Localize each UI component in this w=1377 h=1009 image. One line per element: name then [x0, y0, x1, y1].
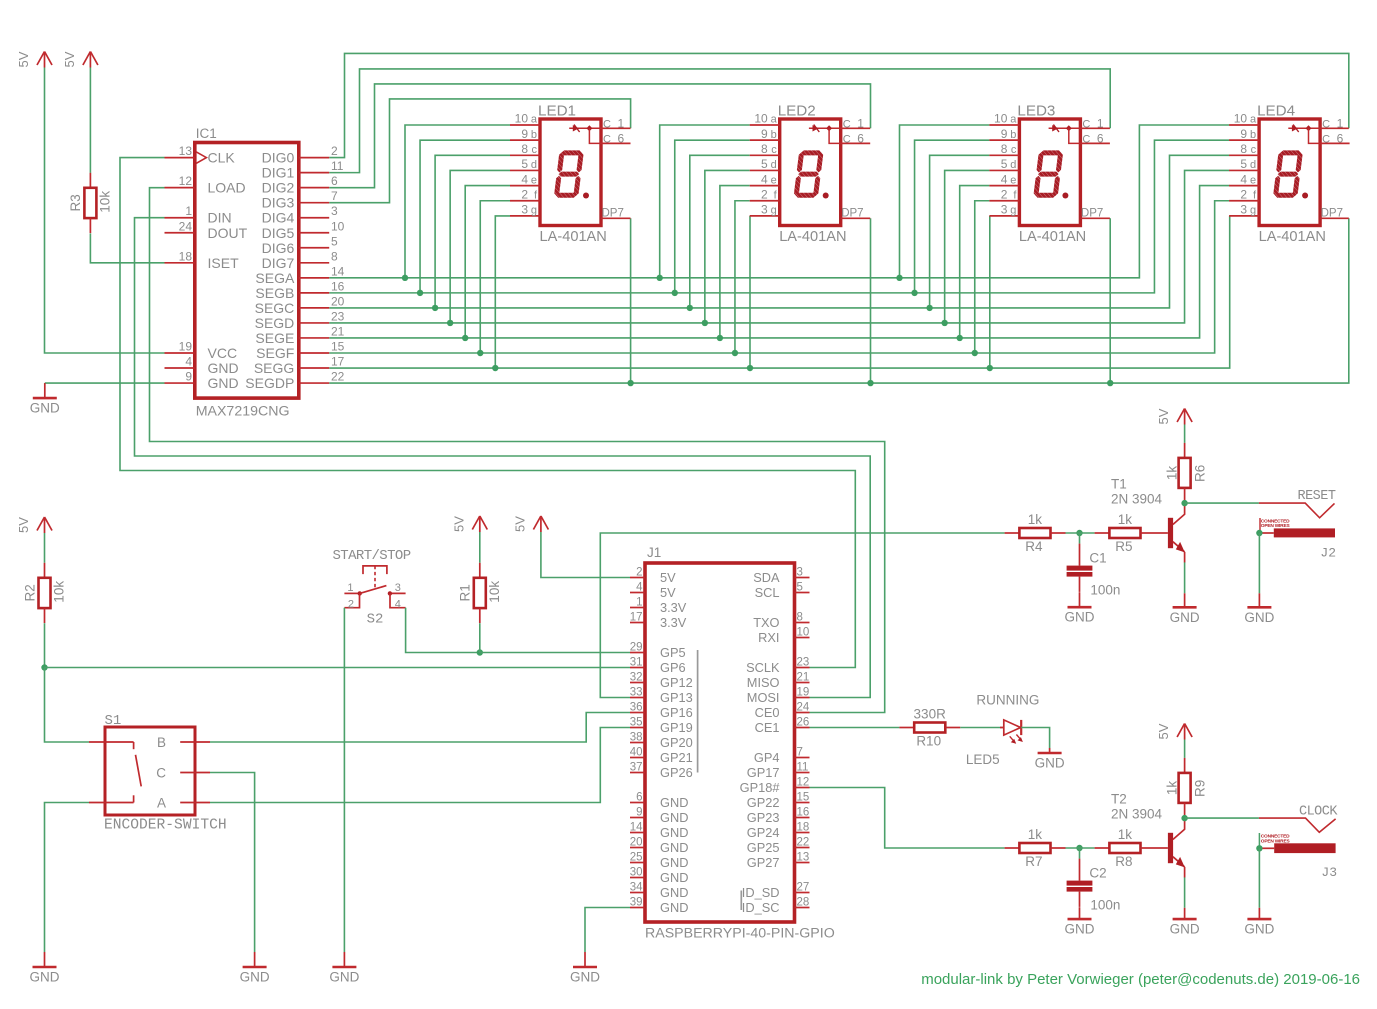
J1 pin 18 GP24	[747, 822, 810, 841]
svg-text:2N 3904: 2N 3904	[1111, 807, 1163, 822]
IC1 pin 2 DIG0	[262, 144, 338, 166]
svg-text:28: 28	[797, 897, 810, 909]
svg-text:e: e	[1010, 174, 1016, 186]
svg-text:5: 5	[521, 157, 528, 171]
svg-text:4: 4	[1240, 172, 1247, 186]
wire LED2 segment b riser	[675, 140, 750, 293]
wire bus SEGE	[329, 186, 1229, 338]
svg-text:12: 12	[797, 777, 810, 789]
svg-text:23: 23	[331, 309, 345, 323]
svg-text:5V: 5V	[660, 585, 676, 600]
svg-text:2: 2	[348, 599, 354, 611]
svg-text:10: 10	[1234, 112, 1248, 126]
svg-text:GND: GND	[660, 885, 688, 900]
svg-text:e: e	[1250, 174, 1256, 186]
junction SEGE tap LED1	[462, 335, 468, 341]
svg-text:5: 5	[1001, 157, 1008, 171]
junction R4/R5/C1	[1076, 530, 1082, 536]
LED3 pin 3 g	[989, 203, 1019, 217]
svg-text:GND: GND	[329, 970, 359, 985]
junction SEGD tap LED3	[941, 320, 947, 326]
svg-text:a: a	[771, 114, 778, 126]
power 5V R9 top	[1156, 723, 1192, 739]
svg-text:1k: 1k	[1118, 827, 1133, 842]
junction SEGB tap LED2	[672, 290, 678, 296]
J1 pin 3 SDA	[753, 567, 809, 586]
LED1 seven-segment digit 8	[554, 150, 584, 197]
svg-text:19: 19	[179, 339, 193, 353]
wire R1 to GP5 node	[479, 623, 481, 652]
svg-text:DIG4: DIG4	[262, 210, 295, 226]
wire S1 A-left to ground	[45, 803, 90, 953]
svg-text:C1: C1	[1089, 551, 1106, 566]
wire LED1 DP drop	[630, 218, 632, 383]
LED1 pin 8 c	[510, 142, 540, 156]
J1 pin 10 RXI	[758, 627, 809, 646]
svg-text:LED5: LED5	[966, 752, 1000, 767]
svg-text:GND: GND	[660, 840, 688, 855]
IC1 pin 5 DIG6	[262, 234, 338, 256]
LED1 decimal point	[583, 193, 589, 199]
svg-text:e: e	[771, 174, 777, 186]
wire R5 to T1 base	[1156, 532, 1168, 534]
svg-text:3: 3	[761, 203, 768, 217]
svg-text:DIN: DIN	[208, 210, 232, 226]
J1 pin 16 GP23	[747, 807, 810, 826]
wire bus SEGD	[329, 170, 1229, 322]
svg-text:21: 21	[797, 672, 810, 684]
svg-text:LA-401AN: LA-401AN	[779, 229, 846, 245]
svg-text:6: 6	[1337, 131, 1344, 145]
wire S2 to ground	[343, 608, 345, 952]
svg-text:1: 1	[618, 116, 625, 130]
J1 GPIO bracket line	[697, 650, 699, 773]
svg-text:a: a	[1010, 114, 1017, 126]
wire R2 to GP6 node	[44, 623, 46, 667]
svg-text:GND: GND	[1065, 610, 1095, 625]
svg-text:GND: GND	[1170, 610, 1200, 625]
J1 pin 32 GP12	[630, 672, 693, 691]
wire S1 A to GP19	[210, 728, 630, 803]
wire T2 emitter to ground	[1184, 877, 1186, 907]
J1 pin 9 GND	[630, 807, 688, 826]
junction SEGC tap LED2	[687, 305, 693, 311]
svg-text:GP13: GP13	[660, 690, 693, 705]
wire LED1 segment d riser	[450, 170, 510, 322]
wire DIN net to J1 MOSI	[135, 218, 871, 698]
wire node to C1	[1079, 533, 1081, 544]
svg-text:CLK: CLK	[208, 150, 236, 166]
LED1 pin 7 DP	[601, 208, 631, 220]
svg-text:START/STOP: START/STOP	[333, 548, 411, 564]
J1 pin 24 CE0	[755, 702, 810, 721]
svg-text:2: 2	[1240, 187, 1247, 201]
IC1 pin 12 LOAD	[165, 174, 246, 196]
J1 pin 38 GP20	[630, 732, 693, 751]
J1 pin 29 GP5	[630, 642, 686, 661]
ground C1	[1065, 592, 1095, 625]
svg-text:LA-401AN: LA-401AN	[1259, 229, 1326, 245]
svg-text:2: 2	[761, 187, 768, 201]
junction SEGA tap LED1	[402, 275, 408, 281]
wire node to C2	[1079, 848, 1081, 859]
svg-text:9: 9	[1240, 127, 1247, 141]
wire LED2 segment d riser	[705, 170, 750, 322]
connector J2	[1259, 518, 1335, 537]
svg-text:b: b	[1250, 129, 1256, 141]
wire T1 emitter to ground	[1184, 562, 1186, 593]
svg-text:GND: GND	[1244, 610, 1274, 625]
svg-text:10: 10	[754, 112, 768, 126]
junction SEGDP tap LED3	[1107, 380, 1113, 386]
svg-text:1k: 1k	[1165, 466, 1180, 481]
svg-text:C: C	[843, 118, 851, 130]
svg-text:MAX7219CNG: MAX7219CNG	[196, 404, 290, 420]
svg-text:SEGB: SEGB	[255, 285, 294, 301]
svg-text:1k: 1k	[1118, 512, 1133, 527]
svg-text:40: 40	[630, 747, 643, 759]
svg-text:S2: S2	[367, 612, 384, 628]
svg-text:LED4: LED4	[1257, 103, 1295, 120]
J1 pin 15 GP22	[747, 792, 810, 811]
svg-text:C: C	[1082, 133, 1090, 145]
svg-text:6: 6	[857, 131, 864, 145]
LED2 seven-segment digit 8	[793, 150, 823, 197]
svg-text:R8: R8	[1115, 854, 1132, 869]
svg-text:4: 4	[395, 599, 401, 611]
svg-text:38: 38	[630, 732, 643, 744]
svg-text:GP5: GP5	[660, 645, 686, 660]
svg-text:10: 10	[331, 219, 345, 233]
svg-text:R4: R4	[1025, 539, 1043, 554]
LED2 pin 7 DP	[841, 208, 871, 220]
svg-text:B: B	[157, 735, 166, 750]
svg-text:GND: GND	[208, 375, 239, 391]
ground S1 A	[30, 952, 60, 985]
svg-text:22: 22	[797, 837, 810, 849]
power 5V J1 5V	[512, 516, 548, 532]
LED4 common cathode symbol	[1288, 125, 1320, 144]
IC1 pin 7 DIG3	[262, 189, 338, 211]
power 5V R3 top	[62, 51, 98, 67]
svg-text:C: C	[1082, 118, 1090, 130]
IC1 pin 21 SEGE	[255, 324, 344, 346]
svg-text:SEGF: SEGF	[256, 345, 294, 361]
svg-text:15: 15	[797, 792, 810, 804]
IC1 pin 6 DIG2	[262, 174, 338, 196]
J1 pin 22 GP25	[747, 837, 810, 856]
svg-text:4: 4	[1001, 172, 1008, 186]
svg-text:17: 17	[630, 612, 643, 624]
junction SEGE tap LED2	[717, 335, 723, 341]
junction SEGG tap LED3	[987, 365, 993, 371]
svg-text:GND: GND	[1035, 756, 1065, 771]
wire LED3 segment f riser	[975, 201, 990, 353]
junction SEGG tap LED1	[492, 365, 498, 371]
wire LED2 segment g riser	[749, 216, 751, 368]
svg-text:d: d	[771, 159, 777, 171]
J1 pin 4 5V	[630, 582, 676, 601]
svg-text:C2: C2	[1089, 866, 1106, 881]
svg-text:GP24: GP24	[747, 825, 780, 840]
wire DIG2 to LED2 C	[329, 84, 870, 188]
svg-text:29: 29	[630, 642, 643, 654]
svg-text:LED2: LED2	[778, 103, 816, 120]
svg-text:10: 10	[797, 627, 810, 639]
J1 pin 17 3.3V	[630, 612, 687, 631]
svg-text:A: A	[157, 796, 166, 811]
LED2 pin 5 d	[750, 157, 780, 171]
svg-text:3: 3	[1001, 203, 1008, 217]
IC1 pin 4 GND	[165, 355, 239, 377]
LED2 pin 1 C	[841, 116, 871, 130]
wire R10 to LED5	[960, 727, 1004, 729]
capacitor C2	[1067, 859, 1121, 913]
wire J3 to ground	[1258, 848, 1260, 908]
svg-text:5V: 5V	[62, 51, 77, 67]
wire LED1 segment g riser	[495, 216, 510, 368]
svg-text:5: 5	[761, 157, 768, 171]
svg-text:11: 11	[331, 159, 344, 173]
svg-text:26: 26	[797, 717, 810, 729]
J1 pin 6 GND	[630, 792, 688, 811]
svg-text:5V: 5V	[16, 51, 31, 67]
svg-text:T2: T2	[1111, 792, 1127, 807]
svg-text:CE0: CE0	[755, 705, 780, 720]
svg-text:8: 8	[521, 142, 528, 156]
wire bus SEGG	[329, 216, 1229, 368]
svg-text:OPEN WIRES: OPEN WIRES	[1261, 523, 1291, 529]
LED2 pin 10 a	[750, 112, 780, 126]
junction SEGF tap LED1	[477, 350, 483, 356]
svg-text:18: 18	[797, 822, 810, 834]
svg-text:g: g	[771, 205, 777, 217]
svg-text:14: 14	[630, 822, 643, 834]
wire node to R5	[1066, 532, 1095, 534]
svg-text:c: c	[771, 144, 777, 156]
IC1 pin 9 GND	[165, 370, 239, 392]
svg-text:10k: 10k	[97, 191, 112, 213]
LED display LED2 LA-401AN	[780, 119, 841, 226]
J1 pin 39 GND	[630, 897, 689, 916]
LED4 pin 4 e	[1229, 172, 1259, 186]
svg-text:ID_SD: ID_SD	[742, 885, 780, 900]
svg-text:LED3: LED3	[1017, 103, 1055, 120]
svg-text:TXO: TXO	[753, 615, 779, 630]
junction SEGE tap LED3	[957, 335, 963, 341]
LED4 pin 6 C	[1320, 131, 1350, 145]
IC1 pin 15 SEGF	[256, 339, 344, 361]
resistor R2	[22, 563, 66, 623]
svg-text:SCLK: SCLK	[746, 660, 780, 675]
LED3 pin 7 DP	[1080, 208, 1110, 220]
LED3 common cathode symbol	[1049, 125, 1081, 144]
ground J3	[1244, 908, 1274, 937]
connector J1 RASPBERRYPI-40-PIN-GPIO	[645, 563, 795, 922]
svg-text:GP25: GP25	[747, 840, 780, 855]
junction SEGA tap LED3	[896, 275, 902, 281]
svg-text:c: c	[1011, 144, 1017, 156]
svg-text:11: 11	[797, 762, 809, 774]
J1 pin 34 GND	[630, 882, 689, 901]
junction R7/R8/C2	[1076, 845, 1082, 851]
power 5V R6 top	[1156, 408, 1192, 424]
J1 pin 25 GND	[630, 852, 689, 871]
wire node to R8	[1066, 847, 1095, 849]
junction SEGD tap LED2	[702, 320, 708, 326]
svg-text:ID_SC: ID_SC	[742, 900, 780, 915]
LED3 decimal point	[1062, 193, 1068, 199]
power 5V VCC rail	[16, 51, 52, 67]
LED1 pin 3 g	[510, 203, 540, 217]
svg-text:GP12: GP12	[660, 675, 693, 690]
svg-text:GP23: GP23	[747, 810, 780, 825]
svg-text:32: 32	[630, 672, 643, 684]
svg-text:SCL: SCL	[755, 585, 780, 600]
LED4 pin 7 DP	[1320, 208, 1349, 220]
svg-text:DP7: DP7	[1081, 208, 1103, 220]
IC U IC1 MAX7219CNG	[195, 143, 299, 399]
svg-text:C: C	[843, 133, 851, 145]
ground T2	[1170, 908, 1200, 937]
svg-text:C: C	[603, 118, 611, 130]
svg-text:DP7: DP7	[841, 208, 863, 220]
svg-text:SEGA: SEGA	[255, 270, 295, 286]
power 5V R2 top	[16, 517, 52, 533]
svg-text:GND: GND	[660, 825, 688, 840]
svg-text:GND: GND	[1065, 922, 1095, 937]
svg-text:LED1: LED1	[538, 103, 576, 120]
svg-text:7: 7	[797, 747, 803, 759]
LED2 pin 9 b	[750, 127, 780, 141]
junction SEGDP tap LED1	[627, 380, 633, 386]
wire R8 to T2 base	[1156, 847, 1168, 849]
svg-text:1: 1	[857, 116, 864, 130]
svg-text:GP26: GP26	[660, 765, 693, 780]
svg-text:DP7: DP7	[602, 208, 624, 220]
J1 pin 23 SCLK	[746, 657, 809, 676]
svg-text:6: 6	[1097, 131, 1104, 145]
svg-text:1: 1	[636, 597, 642, 609]
IC1 pin 1 DIN	[165, 204, 232, 226]
svg-text:DIG5: DIG5	[262, 225, 295, 241]
IC1 pin 24 DOUT	[165, 219, 248, 241]
svg-text:5V: 5V	[660, 570, 676, 585]
resistor R5	[1095, 512, 1156, 554]
IC1 pin 13 CLK	[165, 144, 236, 166]
junction SEGA tap LED2	[657, 275, 663, 281]
J1 pin 14 GND	[630, 822, 689, 841]
wire 5V to R9	[1184, 740, 1186, 758]
junction R1/GP5	[477, 649, 483, 655]
svg-text:8: 8	[761, 142, 768, 156]
svg-text:100n: 100n	[1090, 898, 1120, 913]
IC1 pin 16 SEGB	[255, 279, 344, 301]
wire GP5 net	[480, 652, 630, 654]
svg-text:C: C	[603, 133, 611, 145]
svg-text:34: 34	[630, 882, 643, 894]
svg-text:IC1: IC1	[196, 126, 217, 141]
LED4 pin 3 g	[1229, 203, 1259, 217]
junction SEGB tap LED3	[911, 290, 917, 296]
LED4 decimal point	[1302, 193, 1308, 199]
svg-text:LA-401AN: LA-401AN	[540, 229, 607, 245]
svg-text:modular-link by Peter Vorwiege: modular-link by Peter Vorwieger (peter@c…	[921, 971, 1360, 988]
svg-text:DIG6: DIG6	[262, 240, 295, 256]
LED2 pin 2 f	[750, 187, 780, 201]
svg-text:GP18#: GP18#	[740, 780, 781, 795]
wire S1 B to GP16	[210, 713, 630, 743]
wire LED3 segment c riser	[930, 155, 990, 308]
svg-text:J1: J1	[647, 545, 661, 560]
LED4 seven-segment digit 8	[1273, 150, 1303, 197]
svg-text:19: 19	[797, 687, 810, 699]
svg-text:8: 8	[1240, 142, 1247, 156]
svg-text:c: c	[532, 144, 538, 156]
wire CLK net to J1 SCLK	[120, 158, 855, 668]
svg-text:b: b	[531, 129, 537, 141]
svg-text:RXI: RXI	[758, 630, 779, 645]
svg-text:R5: R5	[1115, 539, 1132, 554]
wire S2 to GP5 node	[406, 608, 480, 653]
svg-text:18: 18	[179, 249, 193, 263]
svg-text:30: 30	[630, 867, 643, 879]
svg-text:5: 5	[1240, 157, 1247, 171]
svg-text:22: 22	[331, 370, 345, 384]
capacitor C1	[1067, 544, 1121, 598]
svg-text:GND: GND	[1170, 922, 1200, 937]
svg-text:3: 3	[395, 582, 401, 594]
J1 pin 8 TXO	[753, 612, 809, 631]
LED3 pin 6 C	[1080, 131, 1110, 145]
J1 pin 28 ID_SC	[742, 897, 810, 916]
J1 pin 26 CE1	[755, 717, 810, 736]
LED1 pin 1 C	[601, 116, 631, 130]
wire 5V to J1 pin2	[541, 532, 630, 578]
svg-text:4: 4	[521, 172, 528, 186]
LED1 pin 6 C	[601, 131, 631, 145]
svg-text:J2: J2	[1320, 546, 1336, 561]
wire 5V to R1	[479, 532, 481, 563]
svg-text:R6: R6	[1192, 465, 1207, 482]
wire LED3 segment d riser	[945, 170, 990, 322]
J1 pin 13 GP27	[747, 852, 810, 871]
wire LED2 segment e riser	[720, 186, 750, 338]
svg-text:5V: 5V	[1156, 723, 1171, 739]
J1 pin 27 ID_SD	[742, 882, 810, 901]
svg-text:9: 9	[185, 370, 192, 384]
svg-text:2: 2	[1001, 187, 1008, 201]
wire LED2 DP drop	[870, 218, 872, 383]
wire LED3 segment e riser	[960, 186, 990, 338]
wire LED3 segment g riser	[989, 216, 991, 368]
svg-text:T1: T1	[1111, 477, 1127, 492]
wire LED2 segment c riser	[690, 155, 750, 308]
J1 pin 21 MISO	[747, 672, 810, 691]
junction SEGDP tap LED2	[867, 380, 873, 386]
svg-text:RESET: RESET	[1297, 489, 1335, 504]
svg-text:9: 9	[521, 127, 528, 141]
LED1 pin 4 e	[510, 172, 540, 186]
wire VCC to 5V	[45, 68, 165, 353]
J1 pin 7 GP4	[754, 747, 810, 766]
ground C2	[1065, 907, 1095, 936]
J1 pin 31 GP6	[630, 657, 686, 676]
wire bus SEGB	[329, 140, 1229, 293]
wire node to S1 B	[45, 668, 90, 743]
svg-text:10: 10	[994, 112, 1008, 126]
LED3 seven-segment digit 8	[1033, 150, 1063, 197]
